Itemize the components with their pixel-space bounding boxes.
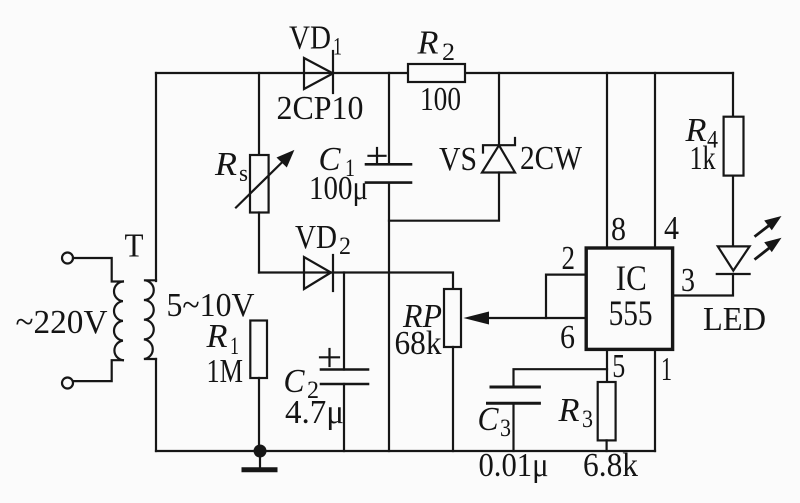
svg-text:1: 1 <box>661 351 672 388</box>
wire: primary bottom lead <box>73 360 123 381</box>
svg-text:6: 6 <box>560 319 575 356</box>
wire: C2 top lead <box>343 273 345 370</box>
wire: R4 top lead <box>732 73 734 117</box>
svg-text:T: T <box>125 228 144 265</box>
resistor Rs (adjustable) <box>236 150 294 213</box>
svg-text:68k: 68k <box>395 325 442 362</box>
svg-text:3: 3 <box>500 415 511 442</box>
terminal: AC input bottom <box>62 378 73 389</box>
wire: top rail <box>156 72 733 74</box>
wire: RP bottom lead <box>452 347 454 451</box>
svg-text:100μ: 100μ <box>309 170 368 207</box>
wire: bottom rail <box>156 450 655 452</box>
transformer T secondary winding <box>144 280 156 359</box>
zener diode VS <box>482 138 515 173</box>
svg-text:R: R <box>214 146 237 183</box>
wire: left rail lower <box>155 359 157 451</box>
wire: pin 3 lead to LED <box>674 274 733 296</box>
svg-text:R: R <box>416 25 438 62</box>
svg-text:4.7μ: 4.7μ <box>285 394 344 431</box>
svg-text:5: 5 <box>612 348 625 385</box>
svg-text:1M: 1M <box>207 353 244 390</box>
wire: Rs top lead <box>258 73 260 155</box>
svg-text:3: 3 <box>582 406 593 433</box>
capacitor C2 <box>320 349 368 384</box>
svg-text:R: R <box>205 318 227 355</box>
svg-text:2CP10: 2CP10 <box>277 90 364 127</box>
wire: VS top lead <box>498 73 500 145</box>
resistor R1 <box>250 321 267 379</box>
diode VD2 <box>304 255 333 291</box>
wire: pin 2 link to pin 6 node <box>546 275 584 318</box>
svg-text:6.8k: 6.8k <box>583 447 638 484</box>
svg-text:3: 3 <box>681 262 695 299</box>
wire: C3 top lead to pin 5 <box>514 369 608 385</box>
resistor R3 <box>598 382 616 440</box>
wire: primary top lead <box>73 258 123 282</box>
terminal: AC input top <box>62 253 73 264</box>
svg-text:VD: VD <box>295 219 337 256</box>
svg-text:555: 555 <box>609 293 653 333</box>
LED light arrow 1 <box>756 216 782 236</box>
wire: VS bottom lead to C1 node <box>389 173 499 221</box>
svg-text:2: 2 <box>442 39 455 66</box>
wire: R1 bottom lead <box>258 378 260 451</box>
wire: C1 branch upper <box>388 73 390 164</box>
wire: C3 bottom lead <box>512 403 514 451</box>
wire: pin 4 lead <box>654 73 656 246</box>
LED VD3 <box>717 246 750 274</box>
svg-text:0.01μ: 0.01μ <box>479 447 549 484</box>
wire: pin 5 lead <box>606 351 608 382</box>
capacitor C1 <box>366 148 411 183</box>
potentiometer RP <box>444 289 584 347</box>
wire: C1 branch lower <box>388 183 390 451</box>
diode VD1 <box>304 51 333 93</box>
svg-text:4: 4 <box>664 210 679 247</box>
op-amp U1: IC 555 timer body <box>586 248 672 349</box>
wire: Rs bottom lead <box>258 213 260 273</box>
resistor R2 <box>408 64 465 82</box>
svg-text:~220V: ~220V <box>16 304 108 341</box>
resistor R4 <box>724 117 744 176</box>
svg-text:VS: VS <box>439 141 477 178</box>
wire: pin 1 lead <box>654 351 656 451</box>
svg-text:100: 100 <box>420 81 461 118</box>
svg-text:1k: 1k <box>690 140 716 177</box>
wire: VD2 node wire to RP <box>259 273 453 290</box>
wire: R3 bottom lead <box>605 440 607 451</box>
transformer T primary winding <box>114 282 123 361</box>
svg-text:s: s <box>239 161 248 187</box>
wire: left rail upper <box>155 73 157 281</box>
svg-text:2: 2 <box>339 233 351 260</box>
svg-text:2: 2 <box>562 240 576 277</box>
LED light arrow 2 <box>756 238 782 259</box>
svg-text:C: C <box>478 401 499 438</box>
svg-text:8: 8 <box>611 211 626 248</box>
svg-text:LED: LED <box>703 301 766 338</box>
svg-text:2CW: 2CW <box>520 140 583 177</box>
wire: pin 8 lead <box>606 73 608 246</box>
capacitor C3 <box>488 387 540 403</box>
svg-text:1: 1 <box>333 34 342 61</box>
svg-text:R: R <box>557 392 579 429</box>
svg-text:VD: VD <box>289 20 331 57</box>
wire: C2 bottom lead <box>343 384 345 451</box>
junction node: R1/ground on bottom rail <box>254 445 267 458</box>
wire: R4 bottom lead <box>732 176 734 247</box>
ground <box>242 451 278 470</box>
svg-text:IC: IC <box>616 258 647 298</box>
